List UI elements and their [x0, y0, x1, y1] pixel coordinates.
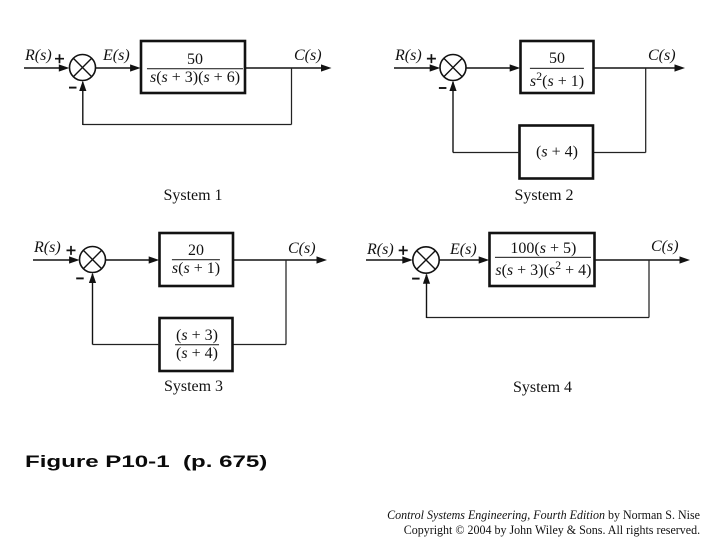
- wire: S1 feedback bottom: [83, 124, 292, 126]
- caption System 3: [164, 379, 223, 395]
- block G3: 20/s(s+1): [160, 233, 234, 286]
- minus sign S2: [439, 87, 447, 89]
- minus sign S1: [69, 87, 77, 89]
- node label C(s) S1: [294, 48, 322, 64]
- wire: S3 feedback up to junction: [92, 274, 94, 345]
- summing junction S3: [80, 247, 106, 273]
- wire: S1 junction to block G1: [96, 67, 132, 69]
- wire: S3 feedback branch down: [285, 260, 287, 345]
- wire: S2 feedback up to junction: [452, 82, 454, 153]
- arrowhead into S3 block G3: [149, 256, 160, 263]
- wire: S3 feedback into H3 right side: [233, 344, 287, 346]
- node label C(s) S2: [648, 48, 676, 64]
- summing junction S2: [440, 55, 466, 81]
- arrowhead S4 output C(s): [680, 256, 691, 263]
- arrowhead into S2 block G2: [510, 64, 521, 71]
- arrowhead S4 feedback into junction: [423, 273, 430, 283]
- wire: S1 feedback branch down: [291, 68, 293, 125]
- node label C(s) S4: [651, 239, 679, 255]
- block H2: (s+4): [520, 126, 594, 179]
- node label R(s) S2: [395, 48, 422, 64]
- block H3: (s+3)/(s+4): [160, 318, 233, 371]
- arrowhead into S2 summing junction: [430, 64, 441, 71]
- wire: S2 output to C(s): [594, 67, 676, 69]
- transfer function G4 text: [495, 240, 591, 280]
- wire: S3 output to C(s): [233, 259, 317, 261]
- wire: S3 junction to block G3: [106, 259, 151, 261]
- node label E(s) S1: [103, 48, 130, 64]
- credit line 2: [404, 522, 700, 538]
- plus sign S4: [399, 246, 408, 255]
- arrowhead S1 output C(s): [321, 64, 332, 71]
- wire: S4 feedback branch down: [648, 260, 650, 318]
- wire: S4 feedback up to junction: [426, 275, 428, 319]
- caption System 2: [514, 188, 573, 204]
- arrowhead into S4 summing junction: [402, 256, 413, 263]
- credit line 1: [387, 507, 700, 523]
- wire: S2 feedback branch down: [645, 68, 647, 153]
- transfer function G3 text: [172, 242, 220, 278]
- summing junction S4: [413, 247, 439, 273]
- wire: S3 input R(s): [33, 259, 70, 261]
- wire: S3 feedback H3 out to left: [93, 344, 160, 346]
- wire: S1 output to C(s): [245, 67, 322, 69]
- node label C(s) S3: [288, 241, 316, 257]
- summing junction S1: [70, 55, 96, 81]
- caption System 4: [513, 380, 572, 396]
- wire: S1 input R(s): [24, 67, 60, 69]
- arrowhead S2 output C(s): [675, 64, 686, 71]
- minus sign S4: [412, 278, 420, 280]
- wire: S4 junction to block G4: [439, 259, 480, 261]
- node label E(s) S4: [450, 242, 477, 258]
- wire: S2 junction to block G2: [466, 67, 511, 69]
- arrowhead into S1 block G1: [130, 64, 141, 71]
- arrowhead into S1 summing junction: [59, 64, 70, 71]
- node label R(s) S4: [367, 242, 394, 258]
- arrowhead S3 feedback into junction: [89, 273, 96, 283]
- wire: S1 feedback up to junction: [82, 82, 84, 125]
- plus sign S3: [67, 246, 76, 255]
- plus sign S2: [427, 54, 436, 63]
- wire: S2 feedback H2 out to left: [453, 152, 520, 154]
- transfer function H2 text: [536, 143, 578, 160]
- arrowhead S1 feedback into junction: [79, 81, 86, 91]
- wire: S2 input R(s): [394, 67, 431, 69]
- node label R(s) S1: [25, 48, 52, 64]
- block G4: 100(s+5)/s(s+3)(s^2+4): [490, 233, 595, 286]
- block G2: 50/s^2(s+1): [521, 41, 594, 93]
- arrowhead into S4 block G4: [479, 256, 490, 263]
- wire: S4 input R(s): [366, 259, 403, 261]
- arrowhead S3 output C(s): [317, 256, 328, 263]
- node label R(s) S3: [34, 240, 61, 256]
- transfer function G1 text: [147, 51, 243, 87]
- figure caption: [25, 453, 267, 472]
- caption System 1: [163, 188, 222, 204]
- arrowhead into S3 summing junction: [69, 256, 80, 263]
- block G1: 50/s(s+3)(s+6): [141, 41, 245, 93]
- wire: S2 feedback into H2 right side: [593, 152, 646, 154]
- transfer function G2 text: [530, 50, 584, 90]
- transfer function H3 text: [175, 327, 219, 363]
- arrowhead S2 feedback into junction: [449, 81, 456, 91]
- wire: S4 output to C(s): [595, 259, 681, 261]
- wire: S4 feedback bottom: [427, 317, 650, 319]
- minus sign S3: [76, 277, 84, 279]
- plus sign S1: [55, 54, 64, 63]
